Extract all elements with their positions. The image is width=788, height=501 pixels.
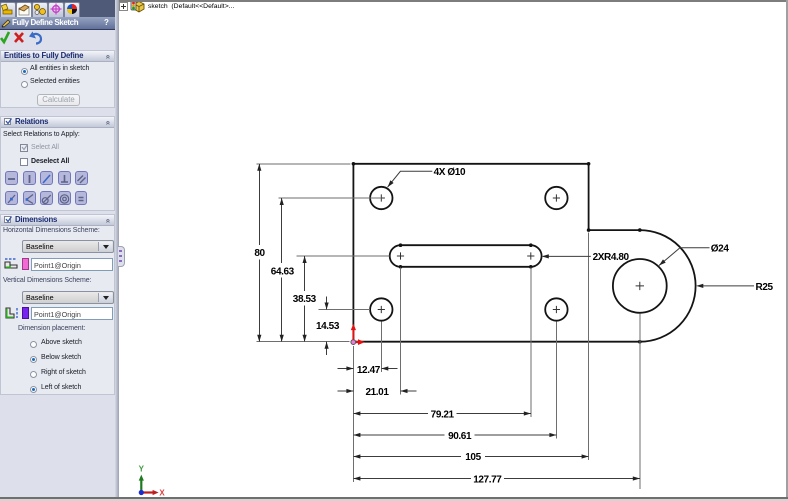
dimension 90.61: [353, 434, 444, 436]
svg-text:127.77: 127.77: [473, 474, 502, 485]
feature tree row: [119, 0, 379, 14]
dimension 64.63: [281, 198, 283, 263]
sketch origin marker (red arrows + pink dot): [353, 329, 360, 343]
dimension 21.01: [337, 390, 353, 392]
dimension arrowheads: [257, 164, 261, 171]
leader O24: [659, 248, 710, 266]
header: Fully Define Sketch: [0, 17, 115, 30]
leader R25: [698, 285, 755, 287]
dimension 127.77: [353, 478, 470, 480]
svg-text:4X Ø10: 4X Ø10: [434, 167, 466, 178]
svg-text:90.61: 90.61: [448, 431, 472, 442]
hole circles 4X O10: [370, 187, 392, 209]
svg-text:2XR4.80: 2XR4.80: [593, 252, 630, 263]
group 3: Dimensions: [0, 214, 115, 395]
view orientation triad: [139, 465, 166, 498]
leader 2XR4.80: [543, 255, 591, 257]
svg-text:R25: R25: [756, 282, 774, 293]
dimension 14.53: [326, 297, 328, 310]
dimension 80: [259, 164, 640, 479]
part icon: [130, 0, 145, 14]
extension lines: [256, 164, 640, 489]
svg-text:38.53: 38.53: [293, 294, 317, 305]
svg-text:80: 80: [254, 248, 265, 259]
dimension 38.53: [304, 256, 306, 291]
svg-text:Y: Y: [139, 465, 145, 474]
dimension 12.47: [337, 368, 353, 370]
svg-text:105: 105: [465, 452, 481, 463]
group 1: Entities to Fully Define: [0, 50, 115, 108]
vertex dots: [352, 162, 356, 166]
plate outline: [353, 164, 695, 342]
vertical scheme icon + swatch + field: [4, 307, 19, 319]
group 2: Relations: [0, 116, 115, 211]
svg-text:12.47: 12.47: [357, 365, 381, 376]
ok / cancel / undo buttons: [0, 30, 46, 45]
slot: [390, 245, 542, 267]
svg-text:21.01: 21.01: [365, 387, 389, 398]
svg-text:79.21: 79.21: [431, 409, 455, 420]
left property manager panel: [0, 0, 119, 497]
center crosses: [378, 194, 385, 201]
dimension 79.21: [353, 413, 427, 415]
big circle O24: [613, 259, 667, 313]
leader 4X O10: [388, 171, 754, 286]
dimension 105: [353, 456, 461, 458]
splitter handle: [118, 246, 125, 267]
svg-text:64.63: 64.63: [271, 266, 295, 277]
horizontal scheme icon + swatch + field: [4, 258, 19, 270]
relation buttons row 2: [5, 191, 18, 205]
svg-text:Ø24: Ø24: [711, 244, 730, 255]
window borders: [119, 0, 788, 2]
relation buttons row 1: [5, 171, 18, 185]
tab strip: [0, 0, 119, 18]
svg-text:14.53: 14.53: [316, 321, 340, 332]
expander box: [119, 2, 128, 11]
